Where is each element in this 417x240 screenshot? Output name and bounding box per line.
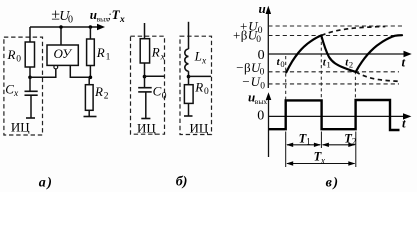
svg-text:t: t bbox=[402, 115, 406, 130]
t axis (bottom zero line) bbox=[269, 115, 405, 117]
svg-text:в): в) bbox=[326, 176, 340, 191]
svg-text:2: 2 bbox=[352, 137, 357, 147]
t0 dashed marker bbox=[285, 56, 287, 100]
wire R2 to terminal bbox=[88, 110, 90, 116]
extension line t0 bbox=[285, 132, 287, 168]
svg-text:x: x bbox=[160, 52, 166, 62]
wire op-amp top pin to rail bbox=[60, 27, 62, 45]
wire node to R0 bbox=[188, 77, 190, 85]
wire Lx to node bbox=[188, 71, 190, 76]
wire node to op-amp input bbox=[30, 69, 56, 78]
svg-text:1: 1 bbox=[306, 137, 311, 147]
svg-text:0: 0 bbox=[260, 81, 265, 91]
label Lx bbox=[194, 49, 207, 67]
svg-text:0: 0 bbox=[68, 15, 73, 26]
wire rail to R0 bbox=[29, 27, 31, 42]
label +betaU0 bbox=[233, 28, 261, 46]
svg-text:1: 1 bbox=[327, 59, 331, 69]
level line +U0 bbox=[268, 25, 402, 27]
extension line t1 bbox=[320, 132, 322, 149]
stub wire node to box edge bbox=[145, 75, 165, 77]
dashed asymptote continuation of rise 1 bbox=[321, 27, 385, 36]
wire node to C0 bbox=[144, 77, 146, 88]
svg-text:−: − bbox=[242, 74, 249, 89]
wire R0 to terminal bbox=[188, 103, 190, 115]
label t1 bbox=[323, 56, 331, 69]
u axis bbox=[267, 11, 269, 88]
level line +betaU0 bbox=[268, 35, 403, 37]
svg-text:0: 0 bbox=[162, 91, 167, 101]
capacitor Cx bbox=[25, 90, 38, 92]
svg-text:0: 0 bbox=[257, 108, 264, 123]
charge curve rise 1 bbox=[286, 35, 321, 72]
node junction Lx/R0 bbox=[187, 75, 191, 79]
label u_vyh; T_x bbox=[90, 7, 125, 25]
label T1 bbox=[299, 131, 311, 146]
dimension arrow Tx bbox=[287, 163, 355, 165]
wire Cx to terminal bbox=[30, 95, 32, 117]
svg-text:R: R bbox=[94, 84, 103, 99]
terminal bar under R2 bbox=[84, 116, 97, 118]
resistor R1 bbox=[87, 39, 95, 66]
svg-text:0: 0 bbox=[280, 59, 284, 69]
svg-text:C: C bbox=[153, 84, 162, 99]
wire rail to R1 bbox=[89, 27, 91, 39]
node junction Rx/C0 bbox=[143, 75, 147, 79]
label C0 bbox=[153, 84, 167, 102]
junction dot rail/op-amp bbox=[59, 25, 63, 29]
label plus-minus U0 bbox=[51, 7, 73, 26]
capacitor C0 bbox=[138, 87, 152, 89]
t axis (zero line) bbox=[268, 53, 405, 55]
label Rx bbox=[151, 45, 166, 63]
u_vyh axis bbox=[268, 97, 270, 157]
wire Rx to node bbox=[144, 63, 146, 77]
level line -betaU0 bbox=[268, 71, 399, 73]
svg-text:R: R bbox=[151, 45, 160, 60]
terminal bar under Cx bbox=[26, 117, 35, 119]
dimension arrow T1 bbox=[287, 144, 320, 146]
label +U0 bbox=[240, 18, 263, 36]
node junction R0/Cx bbox=[28, 76, 32, 80]
charge curve rise 2 bbox=[356, 35, 402, 72]
svg-text:2: 2 bbox=[104, 92, 109, 102]
svg-text:ИЦ: ИЦ bbox=[190, 121, 209, 136]
svg-text:R: R bbox=[96, 45, 105, 60]
svg-text:R: R bbox=[194, 79, 203, 94]
svg-text:+: + bbox=[233, 28, 240, 43]
svg-text:ОУ: ОУ bbox=[54, 46, 74, 61]
svg-text:0: 0 bbox=[256, 35, 261, 45]
label Tx bbox=[314, 149, 325, 165]
t2 dashed marker bbox=[354, 71, 356, 100]
discharge curve fall 1 bbox=[321, 36, 355, 72]
junction dot rail/R1 bbox=[89, 25, 93, 29]
svg-text:x: x bbox=[320, 155, 325, 165]
svg-text:β: β bbox=[244, 60, 251, 75]
t1 dashed marker bbox=[320, 36, 322, 100]
svg-text:вых: вых bbox=[255, 97, 268, 106]
resistor R2 bbox=[85, 85, 93, 111]
wire node to R2 bbox=[88, 77, 90, 84]
svg-text:0: 0 bbox=[260, 68, 265, 78]
dimension arrow T2 bbox=[323, 144, 355, 146]
level line -U0 bbox=[268, 83, 399, 85]
wire R1 to node bbox=[89, 66, 91, 78]
label T2 bbox=[344, 131, 356, 146]
op-amp inverting input circle bbox=[54, 65, 58, 69]
svg-text:R: R bbox=[7, 47, 16, 62]
output square wave bbox=[269, 100, 400, 130]
svg-text:C: C bbox=[5, 81, 14, 96]
svg-text:ИЦ: ИЦ bbox=[11, 119, 30, 134]
label u_vyh bbox=[248, 90, 267, 107]
label t2 bbox=[345, 57, 353, 70]
dashed box IC (Lx R0) bbox=[180, 36, 212, 134]
svg-text:x: x bbox=[201, 56, 207, 66]
svg-text:0: 0 bbox=[16, 54, 21, 64]
svg-text:ИЦ: ИЦ bbox=[137, 121, 156, 136]
label R2 bbox=[94, 84, 109, 102]
dashed box IC (measuring circuit a) bbox=[4, 37, 43, 135]
terminal bar under R0 (b) bbox=[184, 115, 193, 117]
resistor Rx bbox=[140, 39, 149, 63]
wire R0 to node bbox=[29, 67, 31, 77]
extension line t2 bbox=[355, 132, 357, 168]
svg-text:2: 2 bbox=[349, 60, 353, 70]
svg-text:u: u bbox=[259, 1, 266, 16]
inductor Lx bbox=[185, 49, 189, 71]
lead wire into Lx box bbox=[188, 22, 190, 49]
svg-text:0: 0 bbox=[204, 87, 209, 97]
resistor R0 bbox=[25, 42, 34, 67]
stub wire node to box edge bbox=[189, 75, 212, 77]
label -U0 bbox=[242, 74, 265, 92]
label R0 (b) bbox=[194, 79, 209, 97]
svg-text:x: x bbox=[119, 15, 125, 25]
supply rail +/-U0 bbox=[30, 26, 99, 28]
svg-text:а): а) bbox=[39, 176, 54, 191]
dashed continuation of fall toward -U0 bbox=[356, 72, 400, 81]
wire op-amp output to divider node bbox=[70, 65, 90, 77]
svg-text:1: 1 bbox=[106, 52, 111, 62]
svg-text:L: L bbox=[194, 49, 202, 64]
label R0 bbox=[7, 47, 22, 65]
svg-text:x: x bbox=[13, 89, 19, 99]
svg-text:β: β bbox=[241, 28, 248, 43]
rail output arrow bbox=[97, 24, 105, 30]
wire node to Cx bbox=[29, 77, 31, 91]
svg-text:−: − bbox=[236, 60, 243, 75]
svg-text:б): б) bbox=[176, 175, 188, 190]
lead wire into Rx box bbox=[144, 23, 146, 39]
label R1 bbox=[96, 45, 111, 63]
dashed box IC (Rx C0) bbox=[131, 36, 165, 134]
label -betaU0 bbox=[236, 60, 264, 78]
wire C0 to terminal bbox=[145, 92, 147, 118]
label t0 bbox=[277, 56, 285, 69]
op-amp U1 box bbox=[47, 45, 78, 65]
terminal bar under C0 bbox=[141, 118, 150, 120]
junction dot R1/R2 bbox=[89, 76, 93, 80]
svg-text:t: t bbox=[402, 55, 406, 70]
resistor R0 (b) bbox=[184, 85, 193, 104]
label Cx bbox=[5, 81, 19, 99]
